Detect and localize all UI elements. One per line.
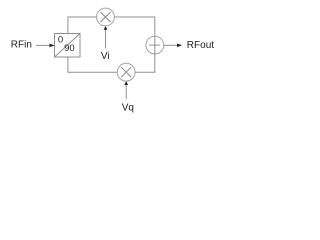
wire mixer Q to summer bottom	[135, 54, 155, 72]
wire splitter top to mixer I	[68, 17, 97, 34]
wire summer to output	[164, 44, 178, 46]
mixer M1 X	[101, 12, 111, 22]
phase splitter box U1 (0/90)	[55, 34, 81, 58]
wire mixer I to summer top	[114, 17, 154, 36]
arrowhead to RFout	[177, 44, 182, 48]
arrowhead into splitter	[50, 44, 55, 48]
wire RFin to splitter	[36, 44, 50, 46]
arrowhead into mixer Q	[124, 81, 128, 85]
mixer M2 circle	[117, 63, 135, 81]
svg-text:RFin: RFin	[11, 40, 32, 51]
wire splitter bottom to mixer Q	[68, 57, 117, 72]
wire Vi vertical	[105, 30, 107, 49]
summer S1 circle	[146, 36, 164, 54]
arrowhead into mixer I	[104, 26, 108, 30]
svg-text:90: 90	[64, 43, 75, 54]
svg-text:RFout: RFout	[187, 40, 214, 51]
summer plus horizontal bar	[149, 44, 160, 46]
svg-text:0: 0	[58, 35, 63, 46]
splitter diagonal	[55, 34, 81, 58]
mixer M2 X	[121, 67, 131, 77]
mixer M1 circle	[97, 8, 115, 26]
svg-text:Vq: Vq	[122, 102, 134, 113]
summer plus vertical / through wire	[154, 36, 156, 54]
wire Vq vertical	[125, 85, 127, 100]
svg-text:Vi: Vi	[101, 51, 110, 62]
